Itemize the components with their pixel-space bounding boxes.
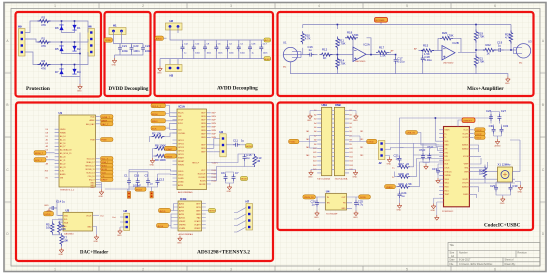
svg-text:D1: D1 xyxy=(77,26,81,30)
svg-text:C21: C21 xyxy=(122,44,128,48)
svg-text:SCL: SCL xyxy=(64,219,68,221)
svg-text:DAC+Header: DAC+Header xyxy=(80,251,109,256)
svg-text:IN7P: IN7P xyxy=(196,203,201,205)
svg-text:PWDN: PWDN xyxy=(178,164,184,166)
svg-text:AVDD: AVDD xyxy=(179,206,185,209)
connector H4 xyxy=(214,130,226,157)
svg-text:C14 1u: C14 1u xyxy=(56,200,65,204)
svg-text:D2: D2 xyxy=(46,143,48,145)
svg-text:D7: D7 xyxy=(55,70,59,74)
svg-text:22: 22 xyxy=(406,162,410,166)
teensy right net label column xyxy=(101,157,114,161)
svg-text:100n: 100n xyxy=(133,49,140,53)
svg-text:1A3: 1A3 xyxy=(306,138,309,141)
svg-text:D2: D2 xyxy=(77,47,81,51)
svg-text:1M: 1M xyxy=(479,172,484,176)
ground J2 xyxy=(387,157,392,166)
svg-text:LMV324ID: LMV324ID xyxy=(443,63,454,65)
svg-text:Revision: Revision xyxy=(518,252,528,255)
svg-text:4.7K: 4.7K xyxy=(305,37,311,41)
wires usb to codec top xyxy=(413,144,444,151)
svg-text:AVSS: AVSS xyxy=(179,209,185,212)
ground avdd xyxy=(157,66,162,75)
ground right of xtal xyxy=(515,182,523,194)
svg-text:1u: 1u xyxy=(309,48,313,52)
svg-text:MICBIAS: MICBIAS xyxy=(375,19,385,22)
svg-text:IN7N: IN7N xyxy=(196,207,201,209)
capacitor C21 100n xyxy=(118,44,128,53)
svg-text:47K: 47K xyxy=(41,44,46,48)
svg-text:GND: GND xyxy=(431,210,436,212)
net label DOUT_T xyxy=(151,119,177,123)
svg-text:CLKSEL: CLKSEL xyxy=(178,133,185,135)
svg-text:R17: R17 xyxy=(379,46,385,50)
net label DVDD teensy left 1 xyxy=(34,151,55,160)
svg-text:U1: U1 xyxy=(59,111,63,115)
svg-text:GND: GND xyxy=(505,83,510,85)
svg-text:HID0: HID0 xyxy=(445,187,449,189)
svg-text:GPIO5: GPIO5 xyxy=(178,154,184,156)
svg-text:1B1: 1B1 xyxy=(360,131,363,133)
ground ic1b xyxy=(177,236,182,245)
svg-text:GPIO1: GPIO1 xyxy=(178,140,184,142)
svg-text:VOUT: VOUT xyxy=(86,215,92,217)
svg-text:C32: C32 xyxy=(503,124,509,128)
svg-text:USBDET: USBDET xyxy=(463,120,473,122)
svg-text:0.01u: 0.01u xyxy=(397,60,404,64)
microcontroller U1 TEENSY3.2 xyxy=(45,111,102,192)
svg-text:DVDD Decoupling: DVDD Decoupling xyxy=(109,87,149,92)
svg-text:MCLK: MCLK xyxy=(136,189,143,191)
svg-text:VINL: VINL xyxy=(464,168,468,170)
svg-text:R15: R15 xyxy=(423,44,429,48)
svg-text:IN8N: IN8N xyxy=(196,214,201,216)
svg-text:PGM: PGM xyxy=(101,140,106,142)
svg-text:GPIO2: GPIO2 xyxy=(178,143,184,145)
resistor R8 xyxy=(153,144,171,151)
svg-text:Mics+Amplifier: Mics+Amplifier xyxy=(467,86,504,92)
svg-text:B3: B3 xyxy=(350,119,352,121)
svg-text:D+: D+ xyxy=(445,133,447,135)
ground caps below IC1A xyxy=(227,185,232,194)
section box Protection xyxy=(16,12,102,97)
resistor R4 47K xyxy=(38,59,51,71)
svg-text:AGND2: AGND2 xyxy=(462,148,468,151)
svg-text:H3: H3 xyxy=(170,74,174,78)
svg-text:GND: GND xyxy=(112,65,117,67)
svg-text:C:\Users\..\EXG Shield.SchDoc: C:\Users\..\EXG Shield.SchDoc xyxy=(459,263,493,266)
ground C20 xyxy=(314,211,319,220)
svg-text:DAC_T: DAC_T xyxy=(101,123,109,126)
svg-text:DVDD: DVDD xyxy=(178,171,184,173)
wires rld loop xyxy=(211,167,245,181)
svg-text:GND: GND xyxy=(150,165,155,167)
svg-text:C27: C27 xyxy=(501,109,507,113)
svg-text:H6: H6 xyxy=(88,25,92,29)
svg-text:IN4N: IN4N xyxy=(201,137,206,139)
svg-text:U4: U4 xyxy=(326,190,330,194)
svg-text:1M: 1M xyxy=(256,159,261,163)
resistor R3 47K xyxy=(38,16,51,28)
svg-text:Vin: Vin xyxy=(45,177,48,179)
svg-text:IN4P: IN4P xyxy=(201,134,206,136)
svg-text:R8 100K: R8 100K xyxy=(155,144,166,148)
svg-text:MISO: MISO xyxy=(152,121,158,123)
net label start xyxy=(165,146,177,150)
svg-text:D1: D1 xyxy=(46,136,48,138)
svg-text:GND: GND xyxy=(353,120,358,122)
svg-text:GND: GND xyxy=(59,254,64,256)
svg-text:IN1P: IN1P xyxy=(212,113,217,115)
section titles xyxy=(26,86,521,256)
svg-text:C3: C3 xyxy=(145,174,149,178)
svg-text:IN3P: IN3P xyxy=(212,127,217,129)
svg-text:IC1A: IC1A xyxy=(179,105,185,109)
svg-text:170K: 170K xyxy=(478,35,485,39)
svg-text:IN3N: IN3N xyxy=(212,130,217,132)
svg-text:1u: 1u xyxy=(498,44,502,48)
svg-text:1A1: 1A1 xyxy=(306,130,309,133)
svg-text:170K: 170K xyxy=(339,42,346,46)
net label usb5v codec left xyxy=(406,131,440,145)
svg-text:IC2A: IC2A xyxy=(364,43,370,47)
svg-text:GND: GND xyxy=(353,217,358,219)
net label WCLK_T xyxy=(151,104,177,113)
svg-text:R1: R1 xyxy=(42,37,46,41)
svg-text:A0_14: A0_14 xyxy=(60,135,65,138)
svg-text:100n: 100n xyxy=(122,49,129,53)
svg-text:AVDD1: AVDD1 xyxy=(179,216,185,219)
capacitor C3 dvdd xyxy=(145,174,154,186)
svg-text:Drawn By:: Drawn By: xyxy=(505,263,516,266)
level shifter U6B xyxy=(332,103,353,176)
svg-text:IN8P: IN8P xyxy=(196,210,201,212)
svg-text:B4: B4 xyxy=(350,123,352,125)
svg-text:IN4P: IN4P xyxy=(212,134,217,136)
svg-text:AVDD: AVDD xyxy=(179,202,185,205)
net label AP left xyxy=(391,50,394,53)
diode D5 xyxy=(55,46,64,52)
svg-text:B11: B11 xyxy=(350,152,353,154)
ground below U5 mid xyxy=(435,202,440,220)
svg-text:SDA0_17: SDA0_17 xyxy=(86,161,94,164)
svg-text:U3: U3 xyxy=(528,40,532,44)
svg-text:47pF: 47pF xyxy=(427,145,434,149)
svg-text:HID1: HID1 xyxy=(445,190,449,192)
svg-text:GND: GND xyxy=(227,191,232,193)
capacitor C23 100n xyxy=(141,44,151,53)
net label AVDD xyxy=(155,36,164,40)
connector H2 xyxy=(166,19,183,30)
svg-text:WCLK: WCLK xyxy=(178,113,184,115)
resistor R12 xyxy=(319,48,332,60)
svg-text:IC2B: IC2B xyxy=(453,41,459,45)
net label MICBIAS selected xyxy=(375,18,388,23)
svg-text:A14: A14 xyxy=(313,164,316,167)
capacitor C25 u4 out xyxy=(354,197,364,211)
svg-text:A9: A9 xyxy=(314,143,316,146)
svg-text:A3_17: A3_17 xyxy=(60,145,65,148)
capacitor C27b 47pF xyxy=(400,145,434,160)
svg-text:5: 5 xyxy=(406,4,408,8)
svg-text:A1: A1 xyxy=(46,138,48,141)
svg-text:IN1N: IN1N xyxy=(201,116,206,118)
resistor R17 xyxy=(376,46,389,58)
net label pwdn xyxy=(165,154,177,158)
usb connector J2 xyxy=(378,141,413,166)
svg-text:B7: B7 xyxy=(350,135,352,137)
svg-text:2A3: 2A3 xyxy=(306,154,309,157)
svg-text:1u: 1u xyxy=(312,203,316,207)
section box AVDD Decoupling xyxy=(155,12,274,96)
svg-text:H1: H1 xyxy=(113,24,117,28)
svg-text:USB5V: USB5V xyxy=(386,187,394,189)
ground dvdd xyxy=(112,58,117,67)
svg-text:MOSI: MOSI xyxy=(152,114,158,116)
svg-text:3: 3 xyxy=(230,268,232,272)
diode D1 xyxy=(72,25,81,31)
svg-text:2A1: 2A1 xyxy=(306,146,309,149)
section box DVDD Decoupling xyxy=(105,12,151,96)
ground protection xyxy=(77,84,82,93)
ground amp xyxy=(505,77,510,86)
DAC IC U3 xyxy=(58,208,104,235)
diode D2 xyxy=(72,46,81,52)
svg-text:A3: A3 xyxy=(314,118,316,121)
svg-text:VCAP4: VCAP4 xyxy=(179,227,185,230)
svg-text:PAD: PAD xyxy=(197,216,201,219)
svg-text:C23: C23 xyxy=(133,44,139,48)
svg-text:RLDOUT: RLDOUT xyxy=(198,173,207,175)
wires codec right xyxy=(474,140,520,198)
svg-text:3V3: 3V3 xyxy=(45,170,48,172)
capacitor C1 dvdd xyxy=(124,174,131,186)
svg-text:MOSI_T: MOSI_T xyxy=(35,153,44,155)
svg-text:H7: H7 xyxy=(246,200,250,204)
net label avss ic1b xyxy=(157,214,174,228)
svg-text:VCCP1: VCCP1 xyxy=(462,133,468,135)
svg-text:MISO0_12: MISO0_12 xyxy=(85,166,94,168)
svg-text:10K: 10K xyxy=(63,239,68,243)
svg-text:AVSS: AVSS xyxy=(178,184,184,187)
svg-text:IN1N: IN1N xyxy=(212,116,217,118)
svg-text:TLV75533P: TLV75533P xyxy=(326,213,338,215)
section box DAC+Header / ADS1298 xyxy=(16,103,273,262)
svg-text:Out: Out xyxy=(100,215,104,218)
resistor R21 xyxy=(474,55,484,68)
net label teensy left 2 xyxy=(34,158,46,162)
svg-text:AVSS: AVSS xyxy=(158,225,164,228)
connector H9 xyxy=(18,25,25,57)
svg-text:IN2P: IN2P xyxy=(212,120,217,122)
resistor R15 xyxy=(421,44,434,56)
crystal X1 xyxy=(498,163,513,183)
svg-text:A2_16: A2_16 xyxy=(60,142,65,145)
svg-text:B10: B10 xyxy=(350,148,353,150)
microphone U3 xyxy=(514,40,533,65)
svg-text:1: 1 xyxy=(54,268,56,272)
svg-text:DGND: DGND xyxy=(463,194,469,196)
capacitor C9 below IC1A xyxy=(221,171,234,185)
svg-text:6: 6 xyxy=(494,4,496,8)
svg-text:DOUT: DOUT xyxy=(178,120,184,122)
svg-text:VBUS: VBUS xyxy=(445,130,451,132)
capacitor C17 xyxy=(394,57,405,64)
svg-text:2: 2 xyxy=(142,268,144,272)
ground C25 xyxy=(353,211,358,220)
svg-text:0.01u: 0.01u xyxy=(425,58,432,62)
capacitor C20 u4 in xyxy=(311,197,320,211)
svg-text:1u: 1u xyxy=(246,156,250,160)
svg-text:A11: A11 xyxy=(313,151,316,154)
svg-text:GND: GND xyxy=(157,73,162,75)
svg-text:DVDD: DVDD xyxy=(178,174,184,176)
svg-text:Date: Date xyxy=(450,259,456,262)
capacitor C16 xyxy=(307,45,314,57)
svg-text:4: 4 xyxy=(318,4,320,8)
resistor R13 rld xyxy=(253,154,262,167)
svg-text:GPIO4: GPIO4 xyxy=(178,150,184,152)
net label DIN_T xyxy=(151,111,177,116)
svg-text:10K: 10K xyxy=(61,227,66,231)
svg-text:GND: GND xyxy=(341,208,346,210)
svg-text:GND0: GND0 xyxy=(60,129,65,131)
ground caps codec top xyxy=(495,139,502,148)
svg-text:TVDD: TVDD xyxy=(289,142,295,144)
svg-text:U1: U1 xyxy=(283,41,287,45)
connector H7 xyxy=(246,200,253,231)
svg-text:RESET: RESET xyxy=(178,161,185,163)
svg-text:1u: 1u xyxy=(150,182,154,186)
svg-text:VOUTR: VOUTR xyxy=(462,183,469,185)
svg-text:CodecIC+USBC: CodecIC+USBC xyxy=(484,223,521,229)
svg-text:VCOM: VCOM xyxy=(463,156,469,158)
svg-text:C30: C30 xyxy=(512,184,518,188)
capacitor C32 second row xyxy=(500,124,509,134)
svg-text:SSPND: SSPND xyxy=(445,175,452,177)
svg-text:GND: GND xyxy=(117,235,122,237)
svg-text:SEL0: SEL0 xyxy=(445,179,449,181)
svg-text:C9: C9 xyxy=(221,171,225,175)
svg-text:LRCK: LRCK xyxy=(445,168,451,170)
svg-text:1: 1 xyxy=(54,4,56,8)
svg-text:170K: 170K xyxy=(447,34,454,38)
svg-text:R2 10K: R2 10K xyxy=(152,132,161,136)
svg-text:XTO: XTO xyxy=(445,152,449,154)
resistor R29 vbus xyxy=(396,162,444,188)
svg-text:A8: A8 xyxy=(46,163,48,166)
svg-text:R29: R29 xyxy=(399,182,405,186)
svg-text:8-Jul-2017: 8-Jul-2017 xyxy=(459,259,471,262)
svg-text:R22: R22 xyxy=(486,43,492,47)
svg-text:IN1P: IN1P xyxy=(201,113,206,115)
caps top right codec xyxy=(486,109,499,124)
resistor R9 xyxy=(153,149,171,163)
svg-text:IN6P: IN6P xyxy=(201,152,206,154)
svg-text:3: 3 xyxy=(230,4,232,8)
svg-text:RLDIN: RLDIN xyxy=(200,180,206,182)
svg-text:C1: C1 xyxy=(124,174,128,178)
svg-text:10K: 10K xyxy=(46,226,51,230)
svg-text:AGND: AGND xyxy=(246,145,253,148)
svg-text:IN5N: IN5N xyxy=(201,148,206,150)
net label agnd h4 xyxy=(246,144,253,148)
capacitor C11 xyxy=(226,139,245,147)
capacitor C26b 47pF xyxy=(419,144,429,165)
resistor R10 xyxy=(301,31,311,44)
svg-text:AGND: AGND xyxy=(265,58,272,61)
resistor R28 usb D- xyxy=(392,159,444,180)
svg-text:PGM: PGM xyxy=(90,140,95,142)
teensy right net labels top xyxy=(101,115,114,119)
svg-text:GND: GND xyxy=(500,203,505,205)
svg-text:ADS1298IPAG: ADS1298IPAG xyxy=(178,191,193,194)
ground teensy xyxy=(99,190,104,199)
svg-text:1B3: 1B3 xyxy=(360,139,363,141)
capacitor C10 below IC1A xyxy=(232,171,240,181)
wires H7 diagonals xyxy=(234,208,246,233)
svg-text:AGND: AGND xyxy=(209,210,216,213)
svg-text:6: 6 xyxy=(494,268,496,272)
svg-text:Number: Number xyxy=(459,252,468,255)
svg-text:GND: GND xyxy=(90,187,95,189)
svg-text:SCLK: SCLK xyxy=(178,123,184,125)
capacitor C22 100n xyxy=(130,44,140,53)
ADC IC1A ADS1298 xyxy=(173,105,218,195)
svg-text:2B1: 2B1 xyxy=(360,147,363,149)
svg-text:AVDD: AVDD xyxy=(241,178,247,181)
wires avdd top rail xyxy=(160,27,264,67)
svg-text:ADS1298+TEENSY3.2: ADS1298+TEENSY3.2 xyxy=(197,250,250,256)
svg-text:Sheet of: Sheet of xyxy=(505,259,514,262)
resistor R23 xyxy=(505,31,513,44)
svg-text:AVDD Decoupling: AVDD Decoupling xyxy=(217,86,258,92)
capacitor C24 vbus xyxy=(398,189,407,203)
title block xyxy=(448,243,540,267)
ground 47pF caps xyxy=(424,164,429,169)
svg-text:A12: A12 xyxy=(313,155,316,158)
svg-text:B6: B6 xyxy=(350,131,352,133)
svg-text:1.5K: 1.5K xyxy=(380,54,386,58)
connector H8 xyxy=(112,209,130,230)
resistor R27 usb D+ xyxy=(392,144,444,170)
net label DVDD dac xyxy=(44,212,54,216)
svg-text:VDD: VDD xyxy=(64,215,69,217)
svg-text:DVDD: DVDD xyxy=(44,214,51,216)
net label AGND right top xyxy=(264,38,271,42)
svg-text:USB_5V: USB_5V xyxy=(407,133,416,135)
svg-text:GND: GND xyxy=(94,241,99,243)
regulator U4 xyxy=(316,190,359,216)
svg-text:IN5P: IN5P xyxy=(201,145,206,147)
svg-text:D-: D- xyxy=(392,177,395,179)
svg-text:B12: B12 xyxy=(350,156,353,158)
svg-text:DGND: DGND xyxy=(178,181,184,183)
svg-text:IN2N: IN2N xyxy=(201,123,206,125)
svg-text:VCAP2: VCAP2 xyxy=(194,220,200,223)
svg-text:TEENSY3.1_2: TEENSY3.1_2 xyxy=(60,190,75,192)
svg-text:GPIO3: GPIO3 xyxy=(178,147,184,149)
resistor R18 feedback xyxy=(345,31,359,40)
ground xtal xyxy=(500,197,505,206)
svg-text:GND: GND xyxy=(353,177,358,179)
svg-text:SCL0_16: SCL0_16 xyxy=(87,159,95,161)
svg-text:GND: GND xyxy=(445,145,450,147)
svg-text:5: 5 xyxy=(406,268,408,272)
resistor R6 xyxy=(58,221,67,234)
svg-text:1K: 1K xyxy=(323,56,327,60)
svg-text:1u: 1u xyxy=(241,139,245,143)
